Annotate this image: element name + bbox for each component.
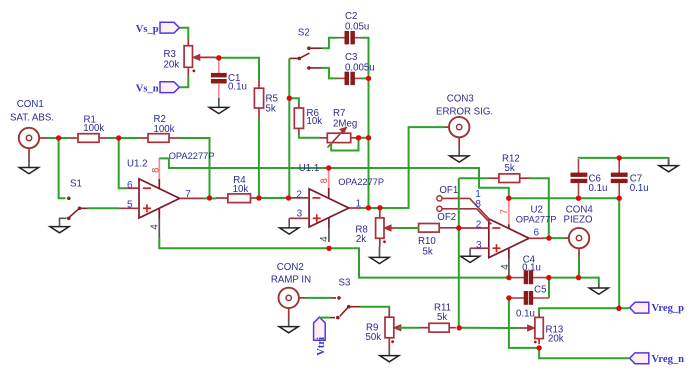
wire C4 row to ground xyxy=(549,278,599,284)
svg-text:C5: C5 xyxy=(534,284,546,295)
resistor R4 10k xyxy=(216,194,256,203)
wire node to U1.2 pin 6 xyxy=(119,138,127,188)
wire C2/C3 right feedback vertical xyxy=(361,38,369,208)
wire R12 left branch xyxy=(459,177,489,179)
wire C5 right elbow xyxy=(548,278,550,298)
wire V+ rail from U1.2 pin 8 xyxy=(159,158,509,198)
wire output node down to R8 xyxy=(379,208,381,212)
wire R3 top from Vs_p flag xyxy=(180,28,189,39)
svg-text:3: 3 xyxy=(297,208,303,219)
svg-text:0.005u: 0.005u xyxy=(345,62,375,73)
svg-text:0.1u: 0.1u xyxy=(589,183,608,194)
svg-text:OF1: OF1 xyxy=(439,185,458,196)
resistor R12 5k xyxy=(488,174,529,183)
resistor R10 5k xyxy=(410,224,456,233)
wire C7 top stub xyxy=(618,158,620,160)
svg-text:0.1u: 0.1u xyxy=(228,82,247,93)
svg-text:5k: 5k xyxy=(505,163,515,174)
ground (CON3) xyxy=(450,147,469,162)
resistor R1 100k xyxy=(69,134,109,143)
svg-text:5k: 5k xyxy=(423,247,433,258)
capacitor C6 0.1u xyxy=(571,159,587,198)
wire U2 pin2 node vertical xyxy=(458,178,460,328)
wire C5 left node down to Vreg_n row xyxy=(509,298,539,348)
ground (top right) xyxy=(659,160,678,172)
wire R10 to U2 pin 2 node xyxy=(455,227,462,229)
ground (S1) xyxy=(50,218,69,233)
capacitor C3 0.005u xyxy=(337,72,361,85)
svg-text:0.1u: 0.1u xyxy=(522,263,541,274)
svg-text:CON2: CON2 xyxy=(277,262,304,273)
resistor R6 10k xyxy=(294,103,303,135)
svg-text:5: 5 xyxy=(127,199,133,210)
wire R12 right to U2 output node xyxy=(529,178,549,238)
svg-text:R10: R10 xyxy=(418,236,436,247)
wire S3 lower contact lead xyxy=(331,317,336,319)
connector CON4 (PIEZO BNC) xyxy=(564,228,589,257)
svg-text:50k: 50k xyxy=(366,332,382,343)
potentiometer R13 20k xyxy=(519,313,543,344)
svg-text:Vreg_n: Vreg_n xyxy=(652,354,685,365)
resistor R5 5k xyxy=(254,78,263,118)
net flag Vtri xyxy=(314,317,326,340)
wire S3 upper contact lead xyxy=(331,297,336,299)
svg-text:2: 2 xyxy=(296,189,302,200)
svg-text:Vs_n: Vs_n xyxy=(136,83,159,94)
svg-text:OPA277P: OPA277P xyxy=(516,215,557,225)
svg-text:OPA2277P: OPA2277P xyxy=(338,177,384,187)
svg-text:100k: 100k xyxy=(83,123,104,134)
junction dots xyxy=(56,135,61,140)
svg-text:CON3: CON3 xyxy=(447,93,474,104)
ground (CON2) xyxy=(279,320,298,333)
potentiometer R3 20k xyxy=(184,39,215,76)
wire CON2 to S3 upper contact xyxy=(306,297,331,299)
ground (U1.1 pin 3) xyxy=(280,218,299,234)
svg-text:PIEZO: PIEZO xyxy=(564,214,594,225)
wire Vreg_p row xyxy=(539,308,629,313)
wire R7 lower terminal loop xyxy=(331,138,358,151)
svg-text:0.1u: 0.1u xyxy=(630,183,649,194)
svg-text:Vreg_p: Vreg_p xyxy=(652,303,685,314)
svg-text:10k: 10k xyxy=(307,116,323,127)
net flag Vs_p xyxy=(160,22,179,33)
wire S2 upper contact to C2 xyxy=(322,38,338,49)
potentiometer R9 50k xyxy=(385,308,401,349)
svg-text:1: 1 xyxy=(356,198,362,209)
ground (R9) xyxy=(380,349,399,362)
wire node to S1 upper contact xyxy=(59,138,66,198)
connector CON1 (SAT. ABS. BNC) xyxy=(19,128,49,157)
svg-text:100k: 100k xyxy=(154,124,175,135)
svg-text:U1.1: U1.1 xyxy=(299,163,319,174)
wire S1 pole to U1.2 pin 5 xyxy=(88,207,120,209)
capacitor C1 0.1u xyxy=(211,60,226,98)
wire C3 right lead joint xyxy=(361,77,369,79)
switch S3 xyxy=(336,296,360,319)
switch S1 xyxy=(67,197,88,221)
svg-text:8: 8 xyxy=(151,168,161,173)
svg-text:S1: S1 xyxy=(70,179,82,190)
wire R1 to R2 (summing node) xyxy=(108,137,139,139)
svg-text:0.05u: 0.05u xyxy=(345,21,369,32)
potentiometer R8 2k xyxy=(376,211,397,246)
resistor R11 5k xyxy=(419,323,456,332)
ground (R8) xyxy=(370,247,389,264)
wire Vreg_n row xyxy=(539,348,629,358)
capacitor C7 0.1u xyxy=(611,159,627,198)
svg-text:2k: 2k xyxy=(356,234,366,245)
svg-text:OPA2277P: OPA2277P xyxy=(169,151,215,161)
svg-text:3: 3 xyxy=(476,240,482,251)
wire R9 wiper to R11 xyxy=(399,327,420,329)
resistor R2 100k xyxy=(139,134,179,143)
wire U1.2 output to R4 xyxy=(203,197,217,199)
op-amp U2 OPA277P xyxy=(437,196,544,277)
connector CON2 (RAMP IN BNC) xyxy=(279,288,307,320)
svg-text:OF2: OF2 xyxy=(437,212,456,223)
svg-text:5k: 5k xyxy=(266,104,276,115)
svg-text:20k: 20k xyxy=(548,334,564,345)
op-amp U1.1 OPA2277P xyxy=(289,168,366,242)
svg-text:U1.2: U1.2 xyxy=(127,159,147,170)
wire R6 bottom to R7 left xyxy=(299,134,320,138)
wire R13 wiper row to U2 input node xyxy=(459,327,519,329)
connector CON3 (ERROR SIG. BNC) xyxy=(444,117,469,147)
wire S3 pole to R9 xyxy=(360,307,390,309)
wire V+ rail to decoupling caps xyxy=(509,198,619,308)
svg-text:7: 7 xyxy=(499,209,509,214)
ground (U2 pin 3) xyxy=(461,248,480,262)
wire Vtri flag to S3 lower contact xyxy=(320,317,331,319)
ground (supply decoupling C4/C5) xyxy=(589,284,608,295)
wire C1 top xyxy=(218,58,220,61)
net flag Vs_n xyxy=(160,82,179,93)
svg-text:0.1u: 0.1u xyxy=(516,308,535,319)
switch S2 xyxy=(289,46,310,69)
wire R5 branch vertical xyxy=(258,118,260,198)
wire CON1 to R1 xyxy=(48,137,70,139)
svg-text:R7: R7 xyxy=(333,108,345,119)
wire U2 pin 4 to V- rail xyxy=(508,276,510,278)
wire S2 pole vertical to input node xyxy=(288,59,290,199)
ground (C1) xyxy=(209,98,228,114)
wire R4 to U1.1 pin 2 node xyxy=(256,197,293,199)
net flag Vreg_p xyxy=(630,302,649,313)
svg-text:6: 6 xyxy=(127,180,133,191)
wire R3 wiper node to R5 top xyxy=(215,58,259,79)
svg-text:SAT. ABS.: SAT. ABS. xyxy=(10,113,54,124)
svg-text:10k: 10k xyxy=(233,184,249,195)
wire U2 output to CON4 xyxy=(543,237,565,239)
svg-text:4: 4 xyxy=(319,236,330,242)
svg-text:7: 7 xyxy=(185,189,191,200)
svg-text:ERROR SIG.: ERROR SIG. xyxy=(436,106,493,117)
svg-text:S2: S2 xyxy=(298,28,310,39)
capacitor C2 0.05u xyxy=(337,31,361,44)
wire decoupling top rail to ground xyxy=(579,158,669,165)
wire CON4 shield to ground row xyxy=(578,257,580,278)
wire junction to R6 top xyxy=(289,98,299,103)
svg-text:4: 4 xyxy=(150,224,161,230)
svg-text:2Meg: 2Meg xyxy=(333,118,357,129)
svg-text:8: 8 xyxy=(475,199,481,210)
wire R8 wiper to R10 xyxy=(396,227,419,229)
svg-text:4: 4 xyxy=(500,264,511,270)
capacitor C5 0.1u xyxy=(509,291,549,304)
svg-text:5k: 5k xyxy=(437,312,447,323)
ground (CON1) xyxy=(19,157,38,174)
svg-text:6: 6 xyxy=(534,227,540,238)
wire R2 to feedback vertical xyxy=(178,138,209,198)
capacitor C4 0.1u xyxy=(509,271,549,284)
svg-text:RAMP IN: RAMP IN xyxy=(271,274,311,285)
net flag Vreg_n xyxy=(630,353,649,364)
svg-text:CON1: CON1 xyxy=(17,99,44,110)
wire R3 bottom to Vs_n flag xyxy=(180,76,189,88)
svg-text:S3: S3 xyxy=(339,278,351,289)
svg-text:2: 2 xyxy=(476,219,482,230)
svg-text:8: 8 xyxy=(319,178,329,183)
op-amp U1.2 OPA2277P xyxy=(119,158,204,238)
potentiometer R7 2Meg xyxy=(320,127,359,147)
svg-text:Vs_p: Vs_p xyxy=(136,24,159,35)
wire V- rail from U1.2 pin 4 xyxy=(159,238,509,278)
wire R7 right to cap feedback line xyxy=(359,137,369,139)
svg-text:20k: 20k xyxy=(164,60,180,71)
wire S2 lower contact to C3 xyxy=(322,68,338,79)
svg-text:Vtri: Vtri xyxy=(316,337,327,356)
wire U1.1 output to CON3 xyxy=(362,127,445,208)
